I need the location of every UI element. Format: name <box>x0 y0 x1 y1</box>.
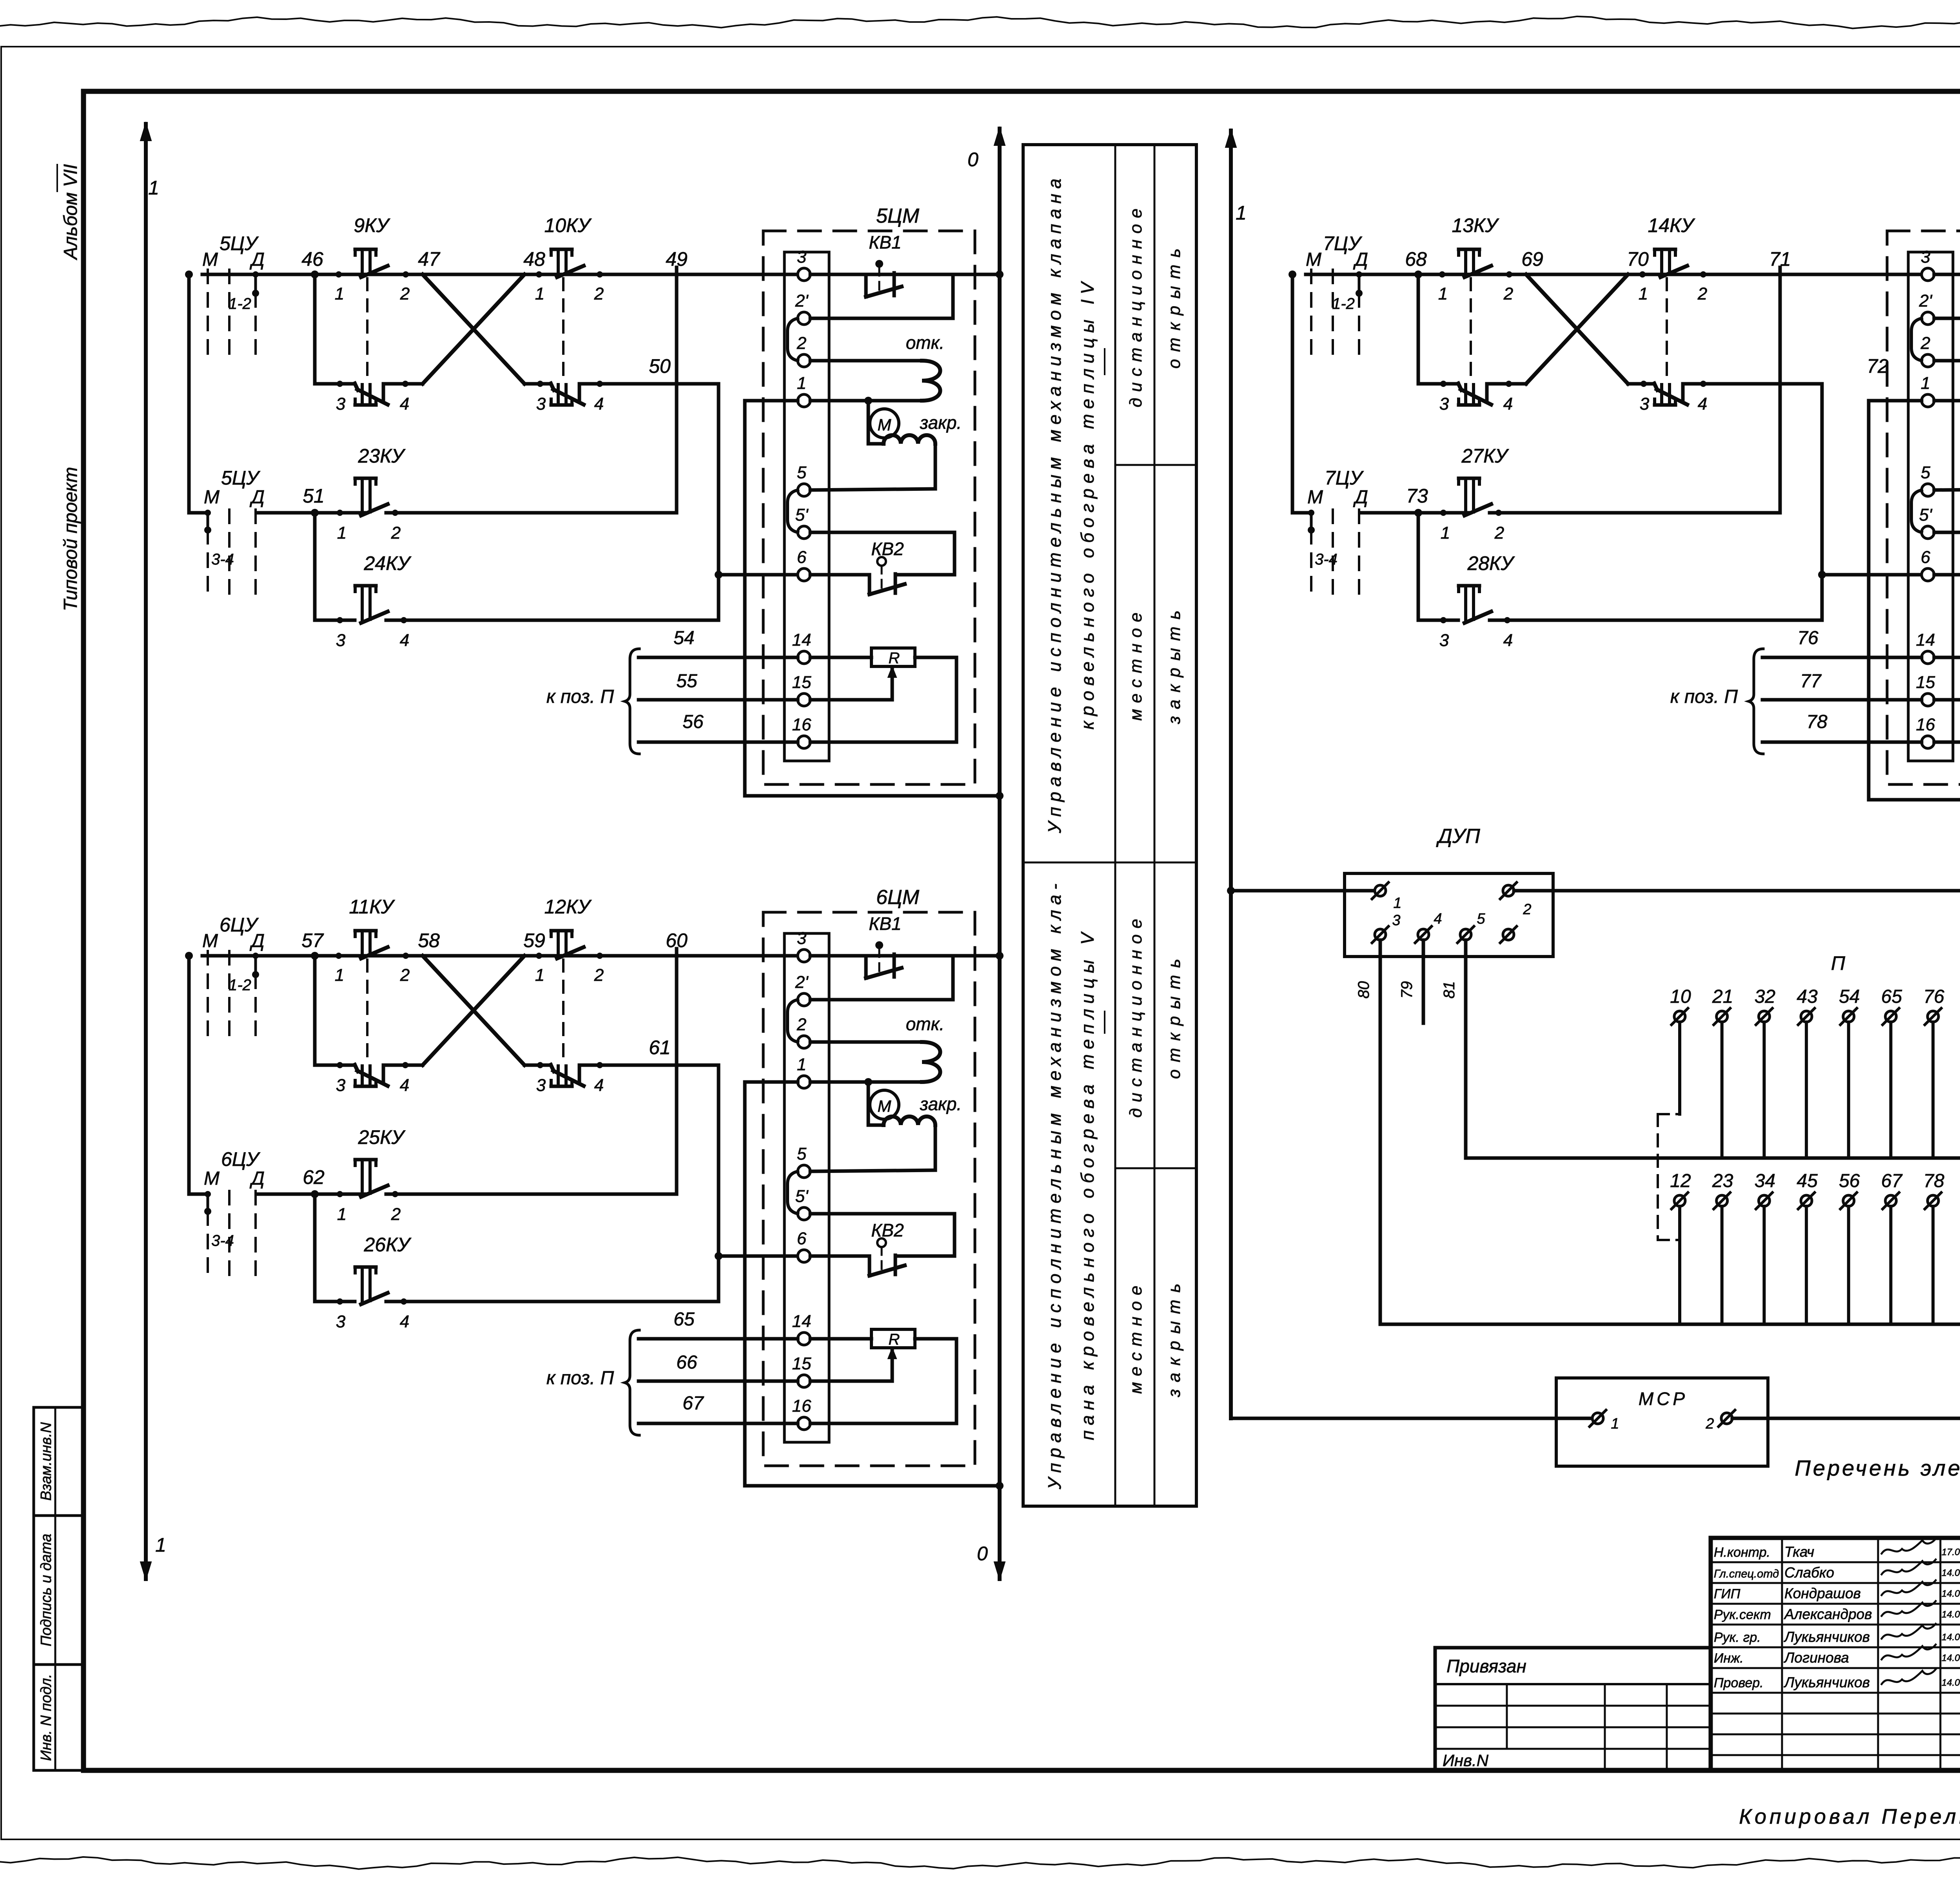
terminal 2' of 5ЦМ <box>795 291 810 325</box>
wire Д to node 68 <box>1359 273 1442 276</box>
node 48 <box>523 248 545 270</box>
svg-text:58: 58 <box>418 929 440 951</box>
П row A contact 65 <box>1881 986 1902 1158</box>
label 28КУ <box>1467 552 1515 574</box>
svg-text:открыть: открыть <box>1165 952 1184 1079</box>
svg-text:2: 2 <box>797 334 806 353</box>
wire terminal 14 to R <box>810 1337 871 1341</box>
signature squiggle 5 <box>1882 1624 1936 1639</box>
svg-text:к поз. П: к поз. П <box>546 1368 614 1389</box>
svg-text:3: 3 <box>1392 912 1400 929</box>
svg-text:5: 5 <box>1921 463 1931 482</box>
label 5ЦУ (row1) <box>220 232 259 254</box>
label отк. (6ЦМ) <box>906 1014 944 1034</box>
control switch 5ЦУ row3 middle dash <box>228 510 230 601</box>
terminal 15 of 5ЦМ <box>792 673 811 706</box>
wire Д to node 57 <box>256 954 339 958</box>
wire terminal 1 to 0 bus (5ЦМ) <box>745 401 1000 796</box>
module 6ЦМ dashed boundary <box>763 912 975 1466</box>
pin 2 of 11КУ <box>400 953 410 985</box>
node 58 <box>418 929 440 951</box>
svg-text:Альбом VII: Альбом VII <box>60 164 81 261</box>
node 61 <box>649 1037 671 1058</box>
pin 2 of 13КУ <box>1503 271 1513 303</box>
svg-text:6ЦМ: 6ЦМ <box>876 886 920 909</box>
title text date 14.01.86 row 6 <box>1942 1653 1960 1663</box>
wire contact to node 71 <box>1686 273 1922 276</box>
svg-text:М: М <box>204 1168 220 1189</box>
wire R to terminal 16 <box>1934 657 1960 742</box>
wire 54 <box>639 628 798 657</box>
title text name Ткач <box>1784 1544 1814 1560</box>
key switch 10КУ contact 3-4 <box>551 383 584 405</box>
title text date 14.01.86 row 4 <box>1942 1609 1960 1620</box>
П row A contact 43 <box>1797 986 1818 1158</box>
riser 61 to row4 <box>717 1065 720 1302</box>
label 1-2 (7ЦУ) <box>1332 295 1355 312</box>
pin 2 of 12КУ <box>594 953 604 985</box>
svg-text:1: 1 <box>1438 284 1448 303</box>
wire contact 27КУ to riser <box>1490 511 1780 515</box>
svg-text:Типовой проект: Типовой проект <box>60 467 81 611</box>
control switch 6ЦУ row1 М dash <box>207 951 209 1042</box>
key switch 12КУ contact 3-4 <box>551 1065 584 1086</box>
ДУП pin 6 <box>1500 926 1517 943</box>
limit switch КВ1 (6ЦМ) <box>810 941 953 1000</box>
svg-text:1: 1 <box>1639 284 1648 303</box>
svg-text:М: М <box>202 931 218 951</box>
torn paper bottom edge <box>0 1857 1960 1869</box>
terminal 5' of 6ЦМ <box>795 1187 810 1220</box>
svg-text:2: 2 <box>391 1205 401 1224</box>
terminal 3 of 6ЦМ <box>797 929 810 962</box>
junction on bus 1 (5ЦУ row1) <box>996 270 1004 278</box>
table text Управление теплицы V <box>1044 879 1105 1490</box>
svg-text:кровельного обогрева теплицы: кровельного обогрева теплицы IV <box>1077 277 1098 730</box>
label Инв.N (title block) <box>1443 1751 1489 1770</box>
key switch 27КУ contact 1-2 <box>1459 478 1491 516</box>
svg-text:пана кровельного обогрева т: пана кровельного обогрева теплицы V <box>1077 928 1098 1440</box>
node 72 <box>1867 355 1889 377</box>
table text местное (V) <box>1126 1280 1145 1394</box>
svg-text:отк.: отк. <box>906 332 944 353</box>
wire riser to terminal 6 (5ЦМ) <box>719 573 798 577</box>
riser 72 to row4 <box>1820 384 1824 620</box>
note Копировал Перелыгина <box>1739 1805 1960 1828</box>
key switch 26КУ contact 1-2 <box>355 1267 388 1304</box>
svg-text:70: 70 <box>1627 248 1649 270</box>
svg-text:4: 4 <box>1503 631 1513 650</box>
svg-text:1: 1 <box>1393 895 1401 911</box>
node 73 <box>1406 485 1428 517</box>
wire 77 <box>1762 671 1922 700</box>
pin 3 of 14КУ <box>1640 381 1650 414</box>
svg-text:15: 15 <box>1916 673 1935 692</box>
key switch 9КУ contact 3-4 <box>355 383 388 405</box>
svg-text:14: 14 <box>1916 630 1935 650</box>
stamp text Инв. N подл. <box>38 1674 54 1761</box>
svg-text:5: 5 <box>797 463 807 482</box>
label КВ2 (5ЦМ) <box>871 539 904 559</box>
svg-text:15: 15 <box>792 673 811 692</box>
jumper 5-5p (7ЦМ) <box>1911 490 1922 532</box>
label 1-2 (5ЦУ) <box>229 295 251 312</box>
device МСР box <box>1556 1378 1768 1466</box>
key switch 12КУ contact 1-2 <box>551 931 584 958</box>
МСР pin 2 <box>1705 1410 1735 1432</box>
jumper 2p-2 (7ЦМ) <box>1911 318 1922 361</box>
svg-text:6: 6 <box>1921 548 1931 567</box>
wire row2 left (5ЦУ) <box>315 382 355 386</box>
svg-text:16: 16 <box>1916 715 1935 734</box>
svg-text:17.01.86: 17.01.86 <box>1942 1547 1960 1558</box>
label 3-4 (5ЦУ) <box>211 551 234 568</box>
wire diag to pin 3 10КУ <box>524 382 551 386</box>
svg-text:3: 3 <box>536 394 546 414</box>
svg-text:4: 4 <box>400 631 409 650</box>
brace к поз.П (5ЦМ) <box>625 649 639 754</box>
label 1-2 (6ЦУ) <box>229 977 251 994</box>
title text date 14.01.86 row 7 <box>1942 1677 1960 1688</box>
svg-text:М: М <box>202 249 218 270</box>
svg-text:Д: Д <box>249 487 265 508</box>
svg-text:67: 67 <box>682 1393 704 1414</box>
title text role Н.контр. <box>1714 1545 1770 1560</box>
label 0 top-left 0-bus <box>967 149 978 171</box>
label 6ЦМ <box>876 886 920 909</box>
label Д (row3 5ЦУ) <box>249 487 265 508</box>
svg-text:24КУ: 24КУ <box>363 552 412 574</box>
middle table narrow split IV <box>1115 464 1196 466</box>
svg-text:15: 15 <box>792 1354 811 1373</box>
title text role Провер. <box>1714 1676 1764 1690</box>
svg-text:79: 79 <box>1398 981 1416 999</box>
wire 1 to contact 27КУ <box>1443 511 1469 515</box>
label Д (row1 5ЦУ) <box>249 249 265 270</box>
svg-text:32: 32 <box>1755 986 1775 1007</box>
svg-text:1: 1 <box>1611 1416 1619 1432</box>
control switch 6ЦУ row3 middle dash <box>228 1191 230 1282</box>
svg-text:2: 2 <box>400 284 410 303</box>
title text name Слабко <box>1784 1565 1834 1581</box>
terminal 5 of 6ЦМ <box>797 1144 810 1178</box>
control switch 5ЦУ row1 Д contact 1-2 <box>252 271 259 361</box>
svg-text:к поз. П: к поз. П <box>546 686 614 707</box>
wire contact to node 60 <box>582 954 798 958</box>
table text открыть (V) <box>1165 952 1184 1079</box>
title text name Александров <box>1784 1606 1872 1622</box>
svg-text:Управление исполнительным ме: Управление исполнительным механизмом кла… <box>1044 174 1065 834</box>
svg-text:4: 4 <box>1434 911 1442 927</box>
control switch 6ЦУ row3 Д dash <box>254 1191 257 1282</box>
crossover diagonal down (5ЦУ) <box>423 274 524 384</box>
control switch 7ЦУ row3 Д dash <box>1358 510 1360 601</box>
limit switch КВ2 (7ЦМ) <box>1934 532 1960 594</box>
svg-text:4: 4 <box>594 394 604 414</box>
МСР pin 1 <box>1590 1410 1619 1432</box>
svg-text:ДУП: ДУП <box>1436 825 1480 848</box>
label 25КУ <box>358 1126 406 1148</box>
svg-text:27КУ: 27КУ <box>1461 445 1509 467</box>
svg-text:дистанционное: дистанционное <box>1126 203 1145 407</box>
svg-text:3: 3 <box>797 929 807 948</box>
svg-text:М: М <box>878 1097 891 1115</box>
wire 50 to vertical <box>579 382 719 386</box>
svg-text:Управление исполнительным ме: Управление исполнительным механизмом кла… <box>1044 879 1065 1490</box>
svg-text:1: 1 <box>535 966 544 985</box>
svg-text:23: 23 <box>1712 1171 1733 1191</box>
label Привязан <box>1446 1656 1526 1676</box>
motor М (5ЦМ) <box>870 409 899 438</box>
svg-text:76: 76 <box>1797 628 1818 648</box>
stamp box Взам.инв.N <box>34 1407 83 1516</box>
pin 3 of 24КУ <box>336 617 346 650</box>
П row B common rail (wire 80) <box>1380 1323 1960 1326</box>
linkage dash 10КУ <box>562 278 564 379</box>
title block Привязан box <box>1435 1648 1711 1770</box>
svg-text:1: 1 <box>797 374 806 393</box>
wire contact 24КУ to riser <box>386 619 719 622</box>
label 1 top-left bus <box>148 177 159 199</box>
pin 1 of 14КУ <box>1639 271 1648 303</box>
wire 76 <box>1762 628 1922 657</box>
svg-text:3-4: 3-4 <box>1315 551 1338 568</box>
terminal 2 of 7ЦМ <box>1920 334 1934 367</box>
svg-text:2: 2 <box>1705 1416 1714 1432</box>
pin 4 of 24КУ <box>400 617 409 650</box>
terminal 3 of 5ЦМ <box>797 247 810 281</box>
svg-text:55: 55 <box>676 671 697 692</box>
wire terminal 14 to R <box>810 656 871 659</box>
label к поз. П (7ЦМ) <box>1670 686 1738 707</box>
node 70 <box>1627 248 1649 270</box>
svg-text:местное: местное <box>1126 1280 1145 1394</box>
svg-text:50: 50 <box>649 355 671 377</box>
svg-text:3: 3 <box>336 1312 346 1331</box>
svg-text:МСР: МСР <box>1639 1389 1688 1409</box>
wire branch to row3 (5ЦУ) <box>189 274 208 513</box>
terminal 6 of 6ЦМ <box>797 1229 810 1262</box>
svg-text:КВ2: КВ2 <box>871 539 904 559</box>
svg-text:Лукьянчиков: Лукьянчиков <box>1784 1674 1870 1690</box>
svg-text:12: 12 <box>1670 1171 1691 1191</box>
svg-text:14: 14 <box>792 630 811 650</box>
junction on bus 1 (6ЦУ row1) <box>996 952 1004 960</box>
label ДУП <box>1436 825 1480 848</box>
svg-text:3: 3 <box>1640 394 1650 414</box>
svg-text:Подпись и дата: Подпись и дата <box>38 1534 54 1646</box>
jumper 2p-2 (5ЦМ) <box>788 318 798 361</box>
svg-text:2': 2' <box>795 291 809 310</box>
svg-text:68: 68 <box>1405 248 1427 270</box>
svg-text:1-2: 1-2 <box>229 295 251 312</box>
node 69 <box>1521 248 1543 270</box>
svg-text:46: 46 <box>301 248 323 270</box>
svg-text:14.01.86: 14.01.86 <box>1942 1653 1960 1663</box>
svg-text:43: 43 <box>1797 986 1818 1007</box>
label М (row1 5ЦУ) <box>202 249 218 270</box>
terminal 14 of 7ЦМ <box>1916 630 1935 664</box>
control switch 5ЦУ row3 Д dash <box>254 510 257 601</box>
pin 2 of 23КУ <box>391 510 401 543</box>
svg-text:Рук. гр.: Рук. гр. <box>1714 1630 1761 1645</box>
svg-text:1: 1 <box>1921 374 1930 393</box>
note Перечень элементов <box>1795 1456 1960 1480</box>
svg-text:КВ2: КВ2 <box>871 1220 904 1240</box>
wire terminal 15 tap to R <box>1934 666 1960 700</box>
label КВ2 (6ЦМ) <box>871 1220 904 1240</box>
node 71 <box>1769 248 1791 270</box>
control switch 6ЦУ row1 middle dash <box>228 951 230 1042</box>
svg-text:КВ1: КВ1 <box>869 913 901 934</box>
svg-text:к поз. П: к поз. П <box>1670 686 1738 707</box>
svg-text:14.01.86: 14.01.86 <box>1942 1677 1960 1688</box>
svg-text:1: 1 <box>1236 202 1247 224</box>
stamp text Подпись и дата <box>38 1534 54 1646</box>
wire R to terminal 16 <box>810 657 956 742</box>
svg-text:9КУ: 9КУ <box>354 214 390 236</box>
svg-text:0: 0 <box>977 1543 988 1565</box>
terminal 16 of 5ЦМ <box>792 715 811 748</box>
node 50 <box>649 355 671 377</box>
control switch 5ЦУ row3 М contact 3-4 <box>204 510 211 601</box>
svg-text:3-4: 3-4 <box>211 551 234 568</box>
key switch 23КУ contact 1-2 <box>355 478 388 516</box>
svg-text:1: 1 <box>337 523 347 543</box>
pin 3 of 10КУ <box>536 381 546 414</box>
svg-text:61: 61 <box>649 1037 671 1058</box>
svg-text:Инв.N: Инв.N <box>1443 1751 1489 1770</box>
svg-text:4: 4 <box>400 394 409 414</box>
wire diag to pin 1 14КУ <box>1628 273 1665 276</box>
jumper 5-5p (6ЦМ) <box>788 1171 798 1214</box>
control switch 7ЦУ row3 М contact 3-4 <box>1308 510 1315 601</box>
coil отк. (7ЦМ) <box>1934 361 1960 401</box>
key switch 10КУ contact 1-2 <box>551 249 584 277</box>
svg-text:Д: Д <box>249 249 265 270</box>
svg-text:закр.: закр. <box>920 412 962 433</box>
pin 1 of 10КУ <box>535 271 544 303</box>
title block signature columns <box>1782 1538 1960 1770</box>
wire terminal 14 to R <box>1934 656 1960 659</box>
wire riser to terminal 6 (6ЦМ) <box>719 1254 798 1258</box>
wire 62 down to row4 <box>315 1194 355 1302</box>
svg-text:отк.: отк. <box>906 1014 944 1034</box>
svg-text:2: 2 <box>400 966 410 985</box>
svg-text:3: 3 <box>1439 631 1449 650</box>
П row A contact 54 <box>1839 986 1860 1158</box>
wire terminal 1 to 0 bus (7ЦМ) <box>1869 401 1960 800</box>
svg-text:1: 1 <box>797 1055 806 1074</box>
wire 79 <box>1398 940 1423 1023</box>
terminal 16 of 7ЦМ <box>1916 715 1935 748</box>
svg-text:54: 54 <box>673 628 694 648</box>
wire 66 <box>639 1352 798 1381</box>
wire 73 down to row4 <box>1418 513 1458 620</box>
svg-text:R: R <box>889 650 900 667</box>
wire contact to pin 2 11КУ <box>386 954 423 958</box>
signature squiggle 6 <box>1882 1645 1936 1659</box>
node 46 <box>301 248 323 278</box>
svg-text:5': 5' <box>795 505 809 525</box>
svg-text:14КУ: 14КУ <box>1648 214 1695 236</box>
pin 1 of 11КУ <box>335 953 344 985</box>
terminal 2 of 5ЦМ <box>797 334 810 367</box>
svg-text:Д: Д <box>249 1168 265 1189</box>
coil отк. (6ЦМ) <box>810 1042 940 1082</box>
label М (row3 7ЦУ) <box>1307 487 1323 508</box>
ДУП pin 5 <box>1457 911 1485 943</box>
svg-text:2': 2' <box>795 973 809 992</box>
node 59 <box>523 929 545 951</box>
svg-text:Гл.спец.отд: Гл.спец.отд <box>1714 1568 1779 1580</box>
svg-text:R: R <box>889 1331 900 1348</box>
wire row2 left (7ЦУ) <box>1418 382 1458 386</box>
wire riser to terminal 6 (7ЦМ) <box>1822 573 1922 577</box>
svg-text:М: М <box>204 487 220 508</box>
label 5ЦУ (row3) <box>221 467 261 489</box>
pin 2 of 10КУ <box>594 271 604 303</box>
key switch 14КУ contact 1-2 <box>1655 249 1687 277</box>
svg-text:11КУ: 11КУ <box>349 896 395 918</box>
svg-text:6: 6 <box>797 1229 807 1248</box>
wire 1 to contact 11КУ <box>339 954 366 958</box>
label 14КУ <box>1648 214 1695 236</box>
label 7ЦУ (row1) <box>1323 232 1363 254</box>
wire 55 <box>639 671 798 700</box>
pin 3 of 26КУ <box>336 1298 346 1331</box>
label 1 bottom-left bus <box>155 1534 166 1556</box>
svg-text:Перечень элементов см. лист: Перечень элементов см. лист АТХ1-27 <box>1795 1456 1960 1480</box>
svg-text:6ЦУ: 6ЦУ <box>221 1148 261 1170</box>
label закр. (5ЦМ) <box>920 412 962 433</box>
П row A common rail (wire 81) <box>1466 1156 1960 1160</box>
svg-text:77: 77 <box>1800 671 1822 692</box>
svg-text:10: 10 <box>1670 986 1691 1007</box>
wire 1 to contact 13КУ <box>1442 273 1469 276</box>
middle table verticals <box>1115 145 1154 1506</box>
crossover diagonal up (6ЦУ) <box>423 956 524 1065</box>
motor М (6ЦМ) <box>870 1090 899 1119</box>
П row A contact 32 <box>1755 986 1775 1158</box>
control switch 6ЦУ row1 Д contact 1-2 <box>252 953 259 1042</box>
П row B contact 34 <box>1755 1171 1775 1324</box>
device ДУП box <box>1345 873 1553 957</box>
key switch 28КУ contact 1-2 <box>1459 586 1491 623</box>
svg-text:14.01.86: 14.01.86 <box>1942 1588 1960 1599</box>
control switch 5ЦУ row1 М dash <box>207 270 209 361</box>
svg-text:3-4: 3-4 <box>211 1232 234 1249</box>
label 10КУ <box>544 214 592 236</box>
table text открыть (IV) <box>1165 241 1184 369</box>
wire row2 left (6ЦУ) <box>315 1064 355 1067</box>
title text name Кондрашов <box>1784 1585 1861 1601</box>
key switch 13КУ contact 3-4 <box>1458 383 1491 405</box>
wire contact to pin 4 13КУ <box>1487 382 1526 386</box>
terminal 15 of 6ЦМ <box>792 1354 811 1387</box>
svg-text:Д: Д <box>1353 249 1368 270</box>
svg-text:закр.: закр. <box>920 1094 962 1114</box>
middle table narrow split V <box>1115 1167 1196 1169</box>
limit switch КВ2 (5ЦМ) <box>810 532 955 594</box>
svg-text:3: 3 <box>336 1076 346 1095</box>
svg-text:3: 3 <box>797 247 807 267</box>
svg-text:23КУ: 23КУ <box>358 445 406 467</box>
brace к поз.П (6ЦМ) <box>625 1330 639 1435</box>
label 13КУ <box>1452 214 1499 236</box>
terminal 16 of 6ЦМ <box>792 1396 811 1430</box>
signature squiggle 1 <box>1882 1539 1936 1554</box>
